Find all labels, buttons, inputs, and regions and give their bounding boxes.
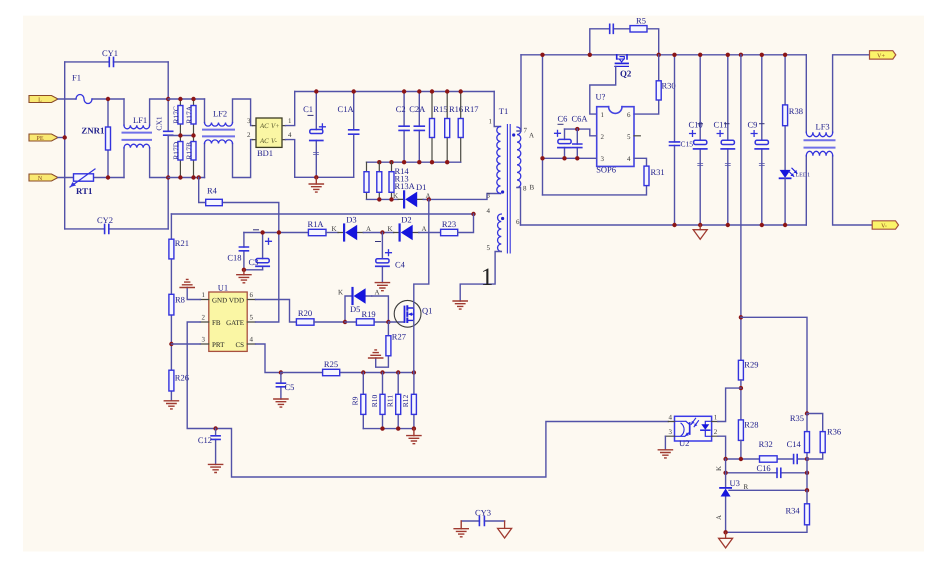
- resistor R1A: [307, 219, 338, 236]
- svg-text:CY2: CY2: [97, 215, 113, 225]
- node bus C2: [402, 89, 406, 93]
- svg-text:N: N: [38, 175, 43, 182]
- wire L row: [58, 98, 124, 100]
- svg-text:C1: C1: [303, 104, 313, 114]
- wire sense row: [363, 372, 414, 374]
- resistor R17: [458, 92, 478, 163]
- node CX1-N: [166, 175, 170, 179]
- node C6A top: [575, 127, 579, 131]
- svg-text:C15: C15: [681, 140, 694, 149]
- svg-text:GND: GND: [212, 296, 227, 304]
- diode D3: [332, 215, 372, 241]
- resistor R38: [783, 55, 803, 170]
- node divider top: [739, 315, 743, 319]
- resistor R16: [445, 92, 463, 163]
- svg-text:U2: U2: [679, 438, 689, 448]
- wire U2 pin1 up: [718, 388, 741, 421]
- resistor R20: [296, 308, 345, 325]
- transformer T1 secondary winding: [516, 127, 535, 227]
- svg-text:8: 8: [523, 185, 527, 193]
- node bus R15: [430, 89, 434, 93]
- svg-text:Q2: Q2: [620, 69, 632, 79]
- ground U1 pin1 (inverted): [180, 279, 194, 287]
- node bottom R13: [377, 197, 381, 201]
- wire DC bottom bus: [295, 176, 354, 178]
- resistor R19: [345, 309, 388, 325]
- svg-text:LF2: LF2: [213, 109, 227, 119]
- node ref R34: [805, 488, 809, 492]
- resistor R29: [738, 360, 758, 420]
- node bus C2A: [417, 89, 421, 93]
- T1 polarity dots: [512, 133, 515, 136]
- svg-text:3: 3: [669, 428, 673, 436]
- svg-text:SOP6: SOP6: [596, 165, 616, 175]
- capacitor C3: [249, 230, 272, 270]
- svg-text:T1: T1: [499, 106, 508, 116]
- wire U1 pin5 GATE up: [256, 233, 279, 323]
- resistor R17D: [172, 136, 183, 178]
- ground sense row: [407, 429, 421, 444]
- node T1 pin4 R23: [471, 212, 475, 216]
- node N-ZNR1: [106, 175, 110, 179]
- wire gate to Q1: [388, 321, 404, 323]
- node C6A bottom: [575, 156, 579, 160]
- svg-text:LF1: LF1: [133, 115, 147, 125]
- svg-text:R17: R17: [464, 104, 478, 114]
- svg-text:C14: C14: [787, 439, 802, 449]
- node R17C mid: [178, 133, 182, 137]
- svg-text:K: K: [393, 192, 398, 200]
- capacitor C18: [227, 233, 262, 270]
- svg-text:R23: R23: [442, 219, 456, 229]
- node bus R16: [445, 89, 449, 93]
- svg-text:C3: C3: [249, 257, 259, 267]
- svg-text:R15: R15: [433, 104, 447, 114]
- wire snubber bottom row: [367, 198, 399, 200]
- node row R16: [445, 160, 449, 164]
- svg-text:4: 4: [487, 207, 491, 215]
- node K row U3: [723, 457, 727, 461]
- svg-text:R34: R34: [786, 506, 801, 516]
- ground C5: [274, 399, 288, 407]
- chassis ground V- rail: [693, 225, 707, 239]
- resistor R14: [364, 162, 409, 199]
- svg-text:R17C: R17C: [172, 106, 181, 124]
- thermistor RT1: [70, 169, 95, 196]
- node bus R17: [459, 89, 463, 93]
- node K row R35: [805, 457, 809, 461]
- svg-text:C18: C18: [227, 253, 241, 263]
- IC U7: [596, 92, 641, 175]
- svg-text:1: 1: [714, 414, 718, 422]
- wire divider column: [806, 459, 808, 490]
- svg-text:R5: R5: [636, 16, 646, 26]
- svg-text:GATE: GATE: [226, 319, 244, 327]
- resistor R30: [634, 55, 676, 114]
- inductor LF2 core: [203, 130, 234, 137]
- svg-text:C5: C5: [285, 382, 295, 392]
- node gate-R4: [277, 230, 281, 234]
- wire BD1 pin4 to bottom bus: [286, 140, 295, 178]
- svg-text:R19: R19: [362, 309, 376, 319]
- svg-text:4: 4: [669, 414, 673, 422]
- resistor R23: [419, 214, 474, 236]
- node C18 C3 bottom: [242, 268, 246, 272]
- wire branch to R35: [741, 317, 807, 413]
- wire U1 pin2 FB run: [187, 322, 668, 477]
- capacitor C1A: [338, 92, 359, 178]
- ground C18 C3: [237, 270, 251, 283]
- inductor LF3 top winding: [806, 55, 869, 137]
- node R20 D5: [343, 320, 347, 324]
- svg-text:R21: R21: [175, 238, 189, 248]
- capacitor CY3: [461, 508, 504, 526]
- connector L: [29, 96, 58, 104]
- ground R26: [164, 401, 178, 409]
- capacitor C6A: [573, 129, 582, 158]
- svg-text:R31: R31: [651, 167, 665, 177]
- node C3 top: [260, 230, 264, 234]
- capacitor CY2: [97, 215, 113, 233]
- node row C2A: [417, 160, 421, 164]
- svg-text:B: B: [530, 184, 535, 192]
- svg-text:R9: R9: [351, 396, 360, 405]
- wire C6 bottom row to U7 pin3: [543, 157, 597, 159]
- svg-text:U?: U?: [596, 92, 606, 102]
- wire PE lead: [58, 137, 65, 139]
- svg-text:R12: R12: [401, 395, 410, 408]
- svg-text:CX1: CX1: [155, 116, 164, 130]
- ground T1 pin5: [453, 301, 467, 309]
- capacitor C2A: [409, 92, 426, 163]
- svg-text:BD1: BD1: [257, 148, 273, 158]
- svg-text:FB: FB: [212, 319, 221, 327]
- resistor R17B: [185, 136, 196, 178]
- svg-text:C6: C6: [558, 114, 568, 124]
- resistor R15: [430, 92, 448, 163]
- svg-text:A: A: [366, 225, 371, 233]
- resistor R31: [543, 158, 665, 195]
- svg-text:C12: C12: [198, 435, 212, 445]
- capacitor C9: [748, 55, 769, 225]
- rail junction dots: [672, 53, 676, 57]
- node R17A top: [191, 97, 195, 101]
- capacitor C14: [787, 439, 802, 464]
- svg-text:LED1: LED1: [796, 173, 811, 179]
- inductor LF2 top winding: [205, 99, 253, 126]
- node K row R28: [739, 457, 743, 461]
- wire V+ rail: [521, 54, 806, 56]
- chassis ground U3: [719, 532, 733, 548]
- wire U2 pin3 to ground: [664, 436, 666, 450]
- svg-text:CS: CS: [235, 341, 244, 349]
- svg-text:K: K: [338, 289, 343, 297]
- svg-text:1: 1: [202, 291, 206, 299]
- svg-text:R10: R10: [370, 395, 379, 408]
- capacitor C6: [555, 114, 589, 159]
- wire C6 column from rail: [542, 55, 544, 195]
- svg-text:LF3: LF3: [816, 122, 830, 132]
- capacitor CY1: [102, 48, 118, 66]
- svg-text:R35: R35: [790, 413, 804, 423]
- wire V- rail: [521, 224, 807, 226]
- svg-text:D2: D2: [401, 215, 411, 225]
- svg-text:PE: PE: [36, 135, 43, 142]
- resistor R17C: [172, 99, 183, 136]
- svg-text:3: 3: [601, 155, 605, 163]
- bridge rectifier BD1: [247, 117, 292, 158]
- node bottom R10: [380, 426, 384, 430]
- connector PE: [29, 134, 58, 142]
- svg-text:A: A: [715, 515, 723, 520]
- node R9 top: [361, 370, 365, 374]
- svg-text:2: 2: [202, 314, 206, 322]
- wire U7 pin2 to C6: [565, 129, 597, 136]
- capacitor C16: [757, 463, 781, 478]
- svg-text:U3: U3: [730, 478, 740, 488]
- svg-text:AC: AC: [259, 123, 269, 130]
- wire U1 pin3: [171, 343, 200, 345]
- svg-text:V-: V-: [271, 138, 278, 145]
- LED LED1: [780, 168, 811, 225]
- resistor R26: [169, 370, 189, 391]
- svg-text:L: L: [38, 97, 42, 104]
- node N row R4 branch: [197, 175, 201, 179]
- resistor R34: [726, 490, 810, 532]
- svg-text:2: 2: [714, 428, 718, 436]
- resistor R8: [169, 294, 185, 315]
- resistor R10: [370, 373, 385, 429]
- wire D5 anode down: [372, 296, 389, 322]
- svg-text:V+: V+: [877, 52, 885, 59]
- node rail T1 aux: [540, 53, 544, 57]
- svg-text:R17B: R17B: [185, 142, 194, 160]
- wire U2 pin2 down: [718, 436, 726, 459]
- wire BD1 pin1 to DC bus: [286, 92, 295, 126]
- resistor R4: [199, 178, 279, 233]
- transformer T1 aux winding: [498, 214, 502, 252]
- svg-text:C4: C4: [395, 260, 406, 270]
- wire U3 ref: [729, 489, 807, 491]
- svg-text:CY1: CY1: [102, 48, 118, 58]
- svg-text:R11: R11: [386, 395, 395, 407]
- svg-text:R17D: R17D: [172, 141, 181, 160]
- wire aux winding long run: [171, 213, 473, 215]
- node gate R27: [386, 320, 390, 324]
- node R17C top: [178, 97, 182, 101]
- node R5 right: [657, 53, 661, 57]
- capacitor C10: [689, 55, 707, 225]
- svg-text:1: 1: [489, 118, 493, 126]
- inductor LF1 top winding: [124, 99, 168, 129]
- resistor R28: [738, 420, 758, 460]
- wire left column: [170, 214, 172, 401]
- svg-text:D3: D3: [346, 215, 356, 225]
- svg-text:Q1: Q1: [422, 306, 432, 316]
- resistor R27: [376, 322, 406, 367]
- connector V+: [870, 51, 896, 60]
- wire CY1 row: [65, 61, 169, 63]
- node row R13: [377, 160, 381, 164]
- svg-text:5: 5: [250, 314, 254, 322]
- capacitor C4: [376, 233, 406, 283]
- wire D1 anode to T1 pin3: [423, 194, 500, 200]
- svg-text:R8: R8: [175, 295, 185, 305]
- svg-text:3: 3: [202, 336, 206, 344]
- svg-text:U1: U1: [218, 283, 228, 293]
- capacitor C12: [198, 429, 220, 465]
- wire C16 row: [726, 472, 807, 474]
- svg-text:C16: C16: [757, 463, 771, 473]
- wire K row: [726, 458, 807, 460]
- diode D5: [338, 288, 380, 322]
- box left vertical (PE net): [64, 62, 66, 229]
- svg-text:C9: C9: [748, 120, 758, 130]
- svg-text:R29: R29: [744, 360, 758, 370]
- node R17B bottom: [191, 175, 195, 179]
- wire T1 pin8 to V- rail: [517, 188, 521, 226]
- chassis ground CY3: [498, 521, 512, 538]
- node C6 row left: [540, 156, 544, 160]
- svg-text:AC: AC: [259, 138, 269, 145]
- wire CY2 row: [65, 228, 169, 230]
- svg-text:3: 3: [487, 192, 491, 200]
- node row R13A: [389, 160, 393, 164]
- optocoupler U2: [665, 414, 718, 448]
- ground R27 (inverted): [369, 350, 383, 358]
- resistor R13: [377, 162, 409, 199]
- wire snubber row: [367, 161, 461, 163]
- wire N row: [58, 177, 124, 179]
- resistor R35: [790, 413, 810, 459]
- svg-text:5: 5: [627, 133, 631, 141]
- svg-text:R36: R36: [827, 427, 841, 437]
- capacitor snubber on R5: [590, 24, 630, 55]
- svg-text:A: A: [529, 132, 534, 140]
- svg-text:C2A: C2A: [409, 104, 426, 114]
- node R12 top: [412, 370, 416, 374]
- diode D1: [393, 182, 431, 207]
- wire U1 pin4 CS: [256, 344, 281, 373]
- svg-text:1: 1: [288, 117, 292, 125]
- connector V-: [872, 221, 898, 230]
- node PRT column: [169, 342, 173, 346]
- node R10 top: [380, 370, 384, 374]
- inductor LF2 bottom winding: [205, 140, 253, 178]
- wire feedback column from V+: [740, 55, 742, 361]
- diode D2: [388, 215, 427, 241]
- svg-text:R17A: R17A: [185, 105, 194, 124]
- svg-text:R13A: R13A: [395, 181, 416, 191]
- node bottom R13A: [389, 197, 393, 201]
- node divider mid: [805, 411, 809, 415]
- svg-text:R32: R32: [759, 439, 773, 449]
- svg-text:R38: R38: [789, 106, 803, 116]
- node row R15: [430, 160, 434, 164]
- inductor LF3 core: [805, 140, 835, 147]
- node bottom R11: [396, 426, 400, 430]
- node C1A top: [352, 89, 356, 93]
- svg-text:F1: F1: [72, 73, 81, 83]
- node D1 anode: [427, 197, 431, 201]
- svg-text:ZNR1: ZNR1: [81, 126, 104, 136]
- svg-text:D5: D5: [350, 304, 360, 314]
- wire DC top bus: [295, 91, 495, 93]
- capacitor C15: [670, 55, 694, 225]
- IC U1: [200, 283, 255, 352]
- svg-text:R30: R30: [662, 81, 676, 91]
- node C16 left: [723, 471, 727, 475]
- wire N row to LF2: [168, 177, 204, 179]
- svg-text:R25: R25: [324, 359, 338, 369]
- shunt regulator U3: [715, 459, 740, 532]
- wire T1 pin5 to ground: [460, 252, 501, 302]
- resistor R11: [386, 373, 401, 429]
- svg-text:C6A: C6A: [572, 114, 589, 124]
- svg-text:C2: C2: [396, 104, 406, 114]
- svg-text:2: 2: [247, 131, 251, 139]
- ground CY3 earth: [454, 521, 468, 537]
- svg-text:K: K: [715, 466, 723, 471]
- svg-text:D1: D1: [416, 182, 426, 192]
- svg-text:C11: C11: [714, 120, 728, 130]
- node PE junction: [62, 135, 66, 139]
- wire U1 pin1 to ground: [187, 288, 200, 300]
- svg-text:V-: V-: [881, 223, 887, 230]
- transformer T1 core: [507, 125, 510, 254]
- svg-text:2: 2: [601, 133, 605, 141]
- inductor LF1 core: [123, 133, 152, 140]
- ground C4: [375, 283, 389, 291]
- wire aux rect row: [244, 232, 309, 234]
- wire Q1 source down: [413, 320, 415, 372]
- svg-text:R1A: R1A: [307, 219, 324, 229]
- transformer T1 primary winding: [487, 106, 509, 200]
- svg-text:3: 3: [247, 117, 251, 125]
- svg-text:C10: C10: [689, 120, 703, 130]
- svg-text:A: A: [422, 225, 427, 233]
- node C4 top: [380, 230, 384, 234]
- ground C1: [309, 177, 323, 192]
- svg-text:6: 6: [516, 218, 520, 226]
- node C1 bottom: [314, 175, 318, 179]
- svg-text:4: 4: [250, 336, 254, 344]
- svg-text:R27: R27: [392, 332, 406, 342]
- svg-text:5: 5: [487, 244, 491, 252]
- resistor R32: [759, 439, 778, 462]
- wire T1 pin7 lead: [517, 55, 521, 131]
- node R11 top: [396, 370, 400, 374]
- wire Q1 drain to D1 anode: [414, 199, 429, 308]
- node bottom R12: [412, 426, 416, 430]
- inductor LF3 bottom winding: [806, 151, 872, 225]
- node R29 R28 U2pin1: [739, 386, 743, 390]
- node C12: [213, 426, 217, 430]
- capacitor C5: [276, 373, 294, 400]
- resistor R13A: [389, 162, 416, 199]
- svg-text:PRT: PRT: [212, 341, 225, 349]
- transistor Q1: [394, 300, 432, 327]
- V- rail dots: [672, 223, 676, 227]
- resistor R21: [169, 238, 189, 259]
- resistor R36: [807, 414, 841, 460]
- node U3 anode bottom: [723, 530, 727, 534]
- svg-text:7: 7: [524, 127, 528, 135]
- svg-text:C1A: C1A: [338, 104, 355, 114]
- node C5: [279, 370, 283, 374]
- svg-text:4: 4: [627, 155, 631, 163]
- wire L row to LF2: [168, 98, 204, 100]
